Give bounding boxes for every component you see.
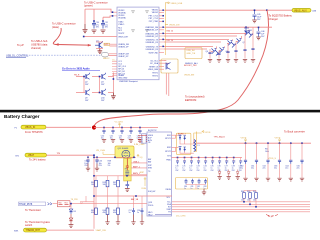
- svg-text:49k: 49k: [91, 212, 94, 214]
- svg-text:49k: 49k: [103, 212, 106, 214]
- TVS diodes D5 D6 D7 under right caps: [218, 170, 239, 177]
- svg-text:GND_TIE: GND_TIE: [187, 53, 196, 55]
- transistor T3: [227, 39, 236, 47]
- wire: long rail y27.2: [166, 26, 272, 28]
- svg-text:TEST2: TEST2: [152, 76, 158, 78]
- yellow highlighted battery FET block: [115, 146, 134, 192]
- svg-text:C82: C82: [197, 186, 200, 188]
- wire y33.4: [164, 32, 246, 34]
- svg-text:R60: R60: [241, 191, 244, 193]
- ground stub left: [83, 24, 88, 33]
- U1 right pin labels: [145, 10, 158, 78]
- junction dots bridge: [83, 76, 114, 94]
- svg-text:Q13 SiS438: Q13 SiS438: [118, 148, 130, 150]
- svg-text:EEPROM: EEPROM: [185, 98, 196, 102]
- svg-text:USB2DN1_DP: USB2DN1_DP: [146, 30, 159, 32]
- net flag VSYS2 mid rail: [275, 137, 281, 143]
- svg-text:VB_CHG: VB_CHG: [96, 150, 105, 152]
- wire: VBUS power rail top-left: [84, 9, 118, 36]
- junction dots input rail: [103, 127, 141, 129]
- svg-text:VSYS: VSYS: [241, 137, 247, 139]
- svg-text:BOOST_OK/: BOOST_OK/: [184, 65, 197, 67]
- svg-text:VSYS_S: VSYS_S: [268, 158, 276, 160]
- svg-text:USB3DN1_RX: USB3DN1_RX: [146, 42, 159, 44]
- divider bar: [0, 110, 320, 113]
- FET pair cluster with orange keepout: [172, 133, 194, 154]
- transistor Q2d: [101, 89, 106, 102]
- transistor T4: [236, 36, 245, 44]
- svg-text:R30 10: R30 10: [167, 31, 174, 33]
- svg-text:Charger: Charger: [269, 17, 279, 21]
- svg-text:PMID: PMID: [166, 160, 171, 162]
- svg-text:Q4: Q4: [206, 51, 209, 53]
- svg-text:SW2: SW2: [167, 147, 171, 149]
- interconnect wires: [172, 135, 194, 153]
- svg-text:To BQ25792 Battery: To BQ25792 Battery: [269, 13, 293, 17]
- wire: long red curve down to battery charger section: [94, 10, 268, 127]
- wire: SYS rail y143: [197, 142, 312, 144]
- U2 left pin labels: [148, 135, 156, 216]
- svg-text:22u: 22u: [297, 168, 300, 170]
- svg-text:switch: switch: [25, 223, 33, 227]
- svg-text:PRT_PWR: PRT_PWR: [149, 21, 159, 23]
- svg-text:C81: C81: [191, 186, 194, 188]
- svg-text:SCL: SCL: [167, 197, 171, 199]
- boost component yellow box under U1 right: [161, 59, 197, 77]
- junction dots on power rail: [83, 20, 104, 37]
- FET Q12: [179, 146, 186, 151]
- svg-text:2N7: 2N7: [85, 84, 88, 86]
- thermistor connector label: [19, 202, 58, 206]
- net flag VBUS over rail: [115, 122, 123, 128]
- annotation: To USB-C connector (data): [52, 22, 76, 29]
- svg-text:R9: R9: [125, 169, 127, 171]
- svg-text:SUSP_IND: SUSP_IND: [149, 52, 159, 54]
- svg-text:THERM_BYP: THERM_BYP: [26, 229, 41, 232]
- svg-text:10k: 10k: [113, 184, 116, 186]
- svg-text:Q6: Q6: [234, 44, 237, 46]
- vertical pink pair right of U1 bottom: [164, 61, 169, 96]
- annotation: To USB-C connector (power): [84, 1, 108, 8]
- junction dots rail y10: [254, 9, 268, 11]
- orange flag right of circle: [137, 154, 145, 174]
- svg-text:GND_PAD: GND_PAD: [118, 76, 128, 79]
- svg-text:To Thermistor: To Thermistor: [25, 208, 41, 212]
- svg-text:BAT_SB: BAT_SB: [131, 198, 139, 201]
- junction dots SYS rail: [245, 142, 303, 144]
- svg-text:Q8: Q8: [251, 34, 254, 36]
- net flag VBUS top: [165, 2, 182, 5]
- ground bridge: [111, 93, 116, 99]
- U1 pin stubs left: [112, 12, 117, 75]
- transistor T1: [206, 46, 221, 55]
- svg-text:To µP: To µP: [17, 43, 24, 47]
- svg-text:22u: 22u: [263, 168, 266, 170]
- svg-text:SBU12: SBU12: [103, 58, 110, 60]
- svg-text:1u: 1u: [184, 188, 186, 190]
- svg-text:BTST2: BTST2: [165, 151, 171, 153]
- red wire labels right of block: [133, 161, 140, 175]
- svg-text:VBAT: VBAT: [28, 154, 35, 157]
- transistor T5: [244, 30, 253, 38]
- ground under C30: [92, 30, 97, 33]
- svg-text:Q7: Q7: [243, 42, 246, 44]
- svg-text:5%: 5%: [108, 165, 111, 167]
- wire from thermistor to IC: [70, 204, 147, 209]
- wire: PMID rail y157.5 right: [172, 157, 243, 159]
- grounds row top right: [208, 60, 255, 63]
- svg-text:L1: L1: [198, 145, 200, 147]
- svg-text:USB780 (data: USB780 (data: [31, 42, 48, 46]
- svg-text:TESTP: TESTP: [118, 33, 125, 35]
- orange net path from inductor to VSYS flag: [194, 131, 211, 152]
- node: big red junction dot: [92, 125, 96, 129]
- orange flag VBUS_CHG left of yellow block: [96, 150, 115, 155]
- capacitor C45 right: [252, 10, 262, 23]
- svg-text:22u: 22u: [251, 168, 254, 170]
- annotation: To uP mark: [266, 215, 278, 218]
- diode D8 below thermistor: [69, 209, 76, 214]
- op IC U1 : USB hub controller: [117, 7, 159, 83]
- svg-text:VBUS_AUX: VBUS_AUX: [294, 9, 307, 12]
- svg-text:XTALO: XTALO: [118, 23, 125, 26]
- svg-text:VSYS: VSYS: [275, 137, 281, 139]
- small blue labels under rail: [265, 149, 269, 153]
- svg-text:HS_R: HS_R: [74, 75, 80, 77]
- svg-text:VBUS_USB: VBUS_USB: [171, 3, 183, 5]
- wire bridge top row: [76, 73, 113, 93]
- FET Q11: [179, 135, 186, 140]
- svg-text:10k: 10k: [103, 184, 106, 186]
- svg-text:1u: 1u: [129, 212, 131, 214]
- transistor T6 top of staircase: [244, 27, 252, 34]
- svg-text:USBUP_DP: USBUP_DP: [118, 56, 129, 58]
- transistor T2: [219, 46, 228, 53]
- svg-text:TPS_BQ24: TPS_BQ24: [214, 137, 226, 139]
- net label USB_DL_CONTROL with dashed wire: [6, 54, 101, 57]
- capacitor below yellow block: [126, 181, 130, 188]
- svg-text:Battery Charger: Battery Charger: [4, 114, 40, 119]
- junction dots PMID rail: [177, 157, 235, 159]
- svg-text:TEST1: TEST1: [152, 73, 158, 75]
- net flag VSYS mid rail: [241, 137, 247, 143]
- svg-text:NC2: NC2: [118, 30, 122, 32]
- transistor Q2b: [101, 73, 106, 86]
- wire y42/46/49: [164, 42, 221, 49]
- svg-text:10k: 10k: [91, 184, 94, 186]
- transistor Q2a: [85, 73, 90, 86]
- capacitor row symbols: [208, 49, 254, 55]
- svg-text:2N7: 2N7: [101, 84, 104, 86]
- svg-text:R62: R62: [253, 191, 256, 193]
- svg-text:VBUS_DN: VBUS_DN: [169, 25, 180, 27]
- svg-text:ILIM_HIZ: ILIM_HIZ: [148, 191, 156, 193]
- annotation: To (unpopulated) EEPROM: [185, 95, 205, 103]
- svg-text:10k: 10k: [247, 199, 250, 201]
- blue hyperlink text: Go On to USB 3633 Audio: [62, 68, 100, 71]
- caps row + drops to grounds top right: [210, 27, 253, 58]
- U2 pin stubs left: [142, 135, 148, 141]
- svg-text:C83: C83: [204, 186, 207, 188]
- ground under yellow block: [125, 189, 130, 192]
- svg-text:To USB-A hub: To USB-A hub: [31, 39, 48, 43]
- svg-text:2N7: 2N7: [101, 100, 104, 102]
- annotation: To USB-A hub USB780 (data channel): [31, 39, 48, 50]
- net pill VBAT left: [16, 153, 95, 157]
- PMID caps row (10): [175, 158, 242, 172]
- wires from FET block to IC: [131, 163, 147, 175]
- svg-text:BATP_1: BATP_1: [133, 165, 140, 168]
- annotation: To BQ25792 Battery Charger: [269, 13, 293, 20]
- orange flag pole vertical: [164, 3, 166, 56]
- svg-text:VDD18A: VDD18A: [118, 17, 126, 20]
- wire y36: [164, 36, 237, 39]
- svg-text:SRP: SRP: [140, 172, 145, 174]
- svg-text:To 24V battery: To 24V battery: [29, 157, 46, 161]
- svg-text:22u: 22u: [285, 168, 288, 170]
- capacitor C31: [101, 21, 109, 29]
- svg-text:PROG: PROG: [148, 205, 154, 207]
- net label HS5: [104, 43, 117, 46]
- svg-text:RGN: RGN: [142, 188, 147, 190]
- svg-text:USBDN_DP: USBDN_DP: [118, 46, 129, 48]
- svg-text:VBUS_IN: VBUS_IN: [25, 126, 36, 129]
- pull-up resistors on I2C lines: [241, 191, 257, 208]
- capacitor C30: [92, 21, 100, 29]
- svg-text:BATN_1: BATN_1: [133, 172, 140, 175]
- resistor row 1 mid-left: [91, 176, 119, 196]
- svg-text:BTST1: BTST1: [165, 138, 171, 140]
- junction dot rail y27: [245, 26, 247, 28]
- svg-text:Go On to to 3633 Audio: Go On to to 3633 Audio: [62, 68, 90, 71]
- svg-text:To Thermistor bypass: To Thermistor bypass: [25, 220, 50, 224]
- wire: battery vertical x94: [94, 155, 172, 229]
- svg-text:VQ: VQ: [140, 157, 143, 159]
- second caps row with orange outline under PMID: [176, 178, 208, 190]
- annotation arrow curve to data pins: [53, 28, 91, 45]
- net flag PRT second: [165, 25, 179, 27]
- svg-text:VAC2: VAC2: [148, 213, 153, 216]
- svg-text:REGN: REGN: [166, 189, 172, 191]
- ground under C31: [101, 30, 106, 33]
- svg-text:PRT_CTL2: PRT_CTL2: [149, 18, 158, 20]
- op IC U2 : BQ25792 charger: [147, 130, 172, 216]
- stub junction dots right of U1: [162, 9, 164, 47]
- svg-text:VBUS_DET: VBUS_DET: [118, 37, 129, 39]
- I2C / status lines right: [167, 197, 311, 212]
- svg-text:(power): (power): [84, 4, 93, 8]
- svg-text:USB_SH: USB_SH: [187, 50, 196, 52]
- svg-text:VBAT_SW: VBAT_SW: [96, 229, 107, 232]
- ground under second caps row: [202, 189, 206, 195]
- net tie yellow box right of staircase: [185, 48, 202, 66]
- svg-text:22u: 22u: [274, 168, 277, 170]
- svg-text:(data): (data): [52, 25, 59, 29]
- junction dot for C46: [258, 27, 260, 29]
- svg-text:RBIAS: RBIAS: [118, 74, 124, 77]
- svg-text:To (unpopulated): To (unpopulated): [185, 95, 205, 99]
- wire: input rail y127.5: [94, 127, 158, 129]
- transistor Q2c: [85, 89, 90, 102]
- svg-text:VBUS_EN: VBUS_EN: [184, 75, 195, 77]
- SYS caps row (6): [240, 143, 304, 181]
- svg-text:D8: D8: [74, 211, 76, 213]
- net pill THERM_BYP bottom: [14, 228, 94, 232]
- wire: long rail y10 to battery charger: [166, 9, 293, 11]
- svg-text:LbM: LbM: [312, 10, 316, 12]
- svg-text:CMB_1: CMB_1: [133, 161, 139, 163]
- resistor row 2 + caps bottom-left: [91, 196, 144, 225]
- svg-text:1u: 1u: [197, 188, 199, 190]
- svg-text:2N7: 2N7: [85, 100, 88, 102]
- svg-text:100k: 100k: [265, 151, 269, 153]
- tall yellow rect below: [124, 158, 131, 181]
- U2 bottom bus corner: [155, 214, 172, 216]
- junction dots on battery net: [87, 154, 137, 196]
- svg-text:I2C_CHG: I2C_CHG: [176, 216, 186, 218]
- svg-text:VI_CHG: VI_CHG: [115, 122, 123, 124]
- svg-text:To Buck converter: To Buck converter: [284, 130, 305, 134]
- svg-text:USB7002 Footprint: USB7002 Footprint: [119, 80, 138, 83]
- net pill VBUS_IN left: [15, 125, 92, 129]
- small label cluster L2: [81, 203, 83, 205]
- inductor L1: [194, 140, 200, 152]
- annotation: To Thermistor bypass switch: [25, 220, 50, 227]
- svg-text:C80: C80: [184, 186, 187, 188]
- svg-text:From TPS2576: From TPS2576: [25, 130, 43, 134]
- connector J2 input header: [138, 134, 146, 144]
- orange flag REGN left of U2: [142, 177, 147, 190]
- svg-text:I2C_SDA: I2C_SDA: [150, 62, 159, 65]
- transistor Q1 near data arrow: [95, 41, 103, 49]
- svg-text:VBUS2: VBUS2: [152, 12, 158, 14]
- capacitor C46 right lower: [256, 27, 265, 39]
- svg-text:USB2DN2_DP: USB2DN2_DP: [146, 36, 159, 38]
- U1 left pin labels: [118, 10, 129, 79]
- svg-text:BQ25792: BQ25792: [148, 130, 157, 132]
- input caps row (5): [101, 128, 142, 143]
- svg-text:VSYS: VSYS: [205, 132, 211, 134]
- svg-text:R61: R61: [247, 191, 250, 193]
- svg-text:10k: 10k: [253, 199, 256, 201]
- NC triangles inside U1: [132, 11, 149, 33]
- thermistor resistor pair: [58, 199, 79, 207]
- svg-text:SW1: SW1: [167, 135, 171, 137]
- caps on battery rail (2): [84, 157, 110, 171]
- ground under Q1: [98, 49, 103, 54]
- coupling ellipse node: [101, 52, 117, 60]
- svg-text:TS_PIN: TS_PIN: [71, 199, 79, 201]
- svg-text:VBUS_PAS: VBUS_PAS: [148, 68, 159, 71]
- svg-text:1u: 1u: [137, 212, 139, 214]
- svg-text:49k: 49k: [113, 212, 116, 214]
- circle symbol: [122, 150, 130, 158]
- U1 pin stubs right: [159, 10, 166, 69]
- net pill VBUS_AUX right top: [292, 8, 317, 12]
- zener + ground bottom thermistor: [69, 214, 74, 228]
- svg-text:ILIM_CHG: ILIM_CHG: [134, 144, 145, 146]
- svg-text:channel): channel): [31, 46, 41, 50]
- svg-text:USB3DN2_RX: USB3DN2_RX: [146, 49, 159, 51]
- svg-text:QON: QON: [148, 202, 153, 204]
- svg-text:1u: 1u: [191, 188, 193, 190]
- U2 right pin labels: [165, 135, 171, 214]
